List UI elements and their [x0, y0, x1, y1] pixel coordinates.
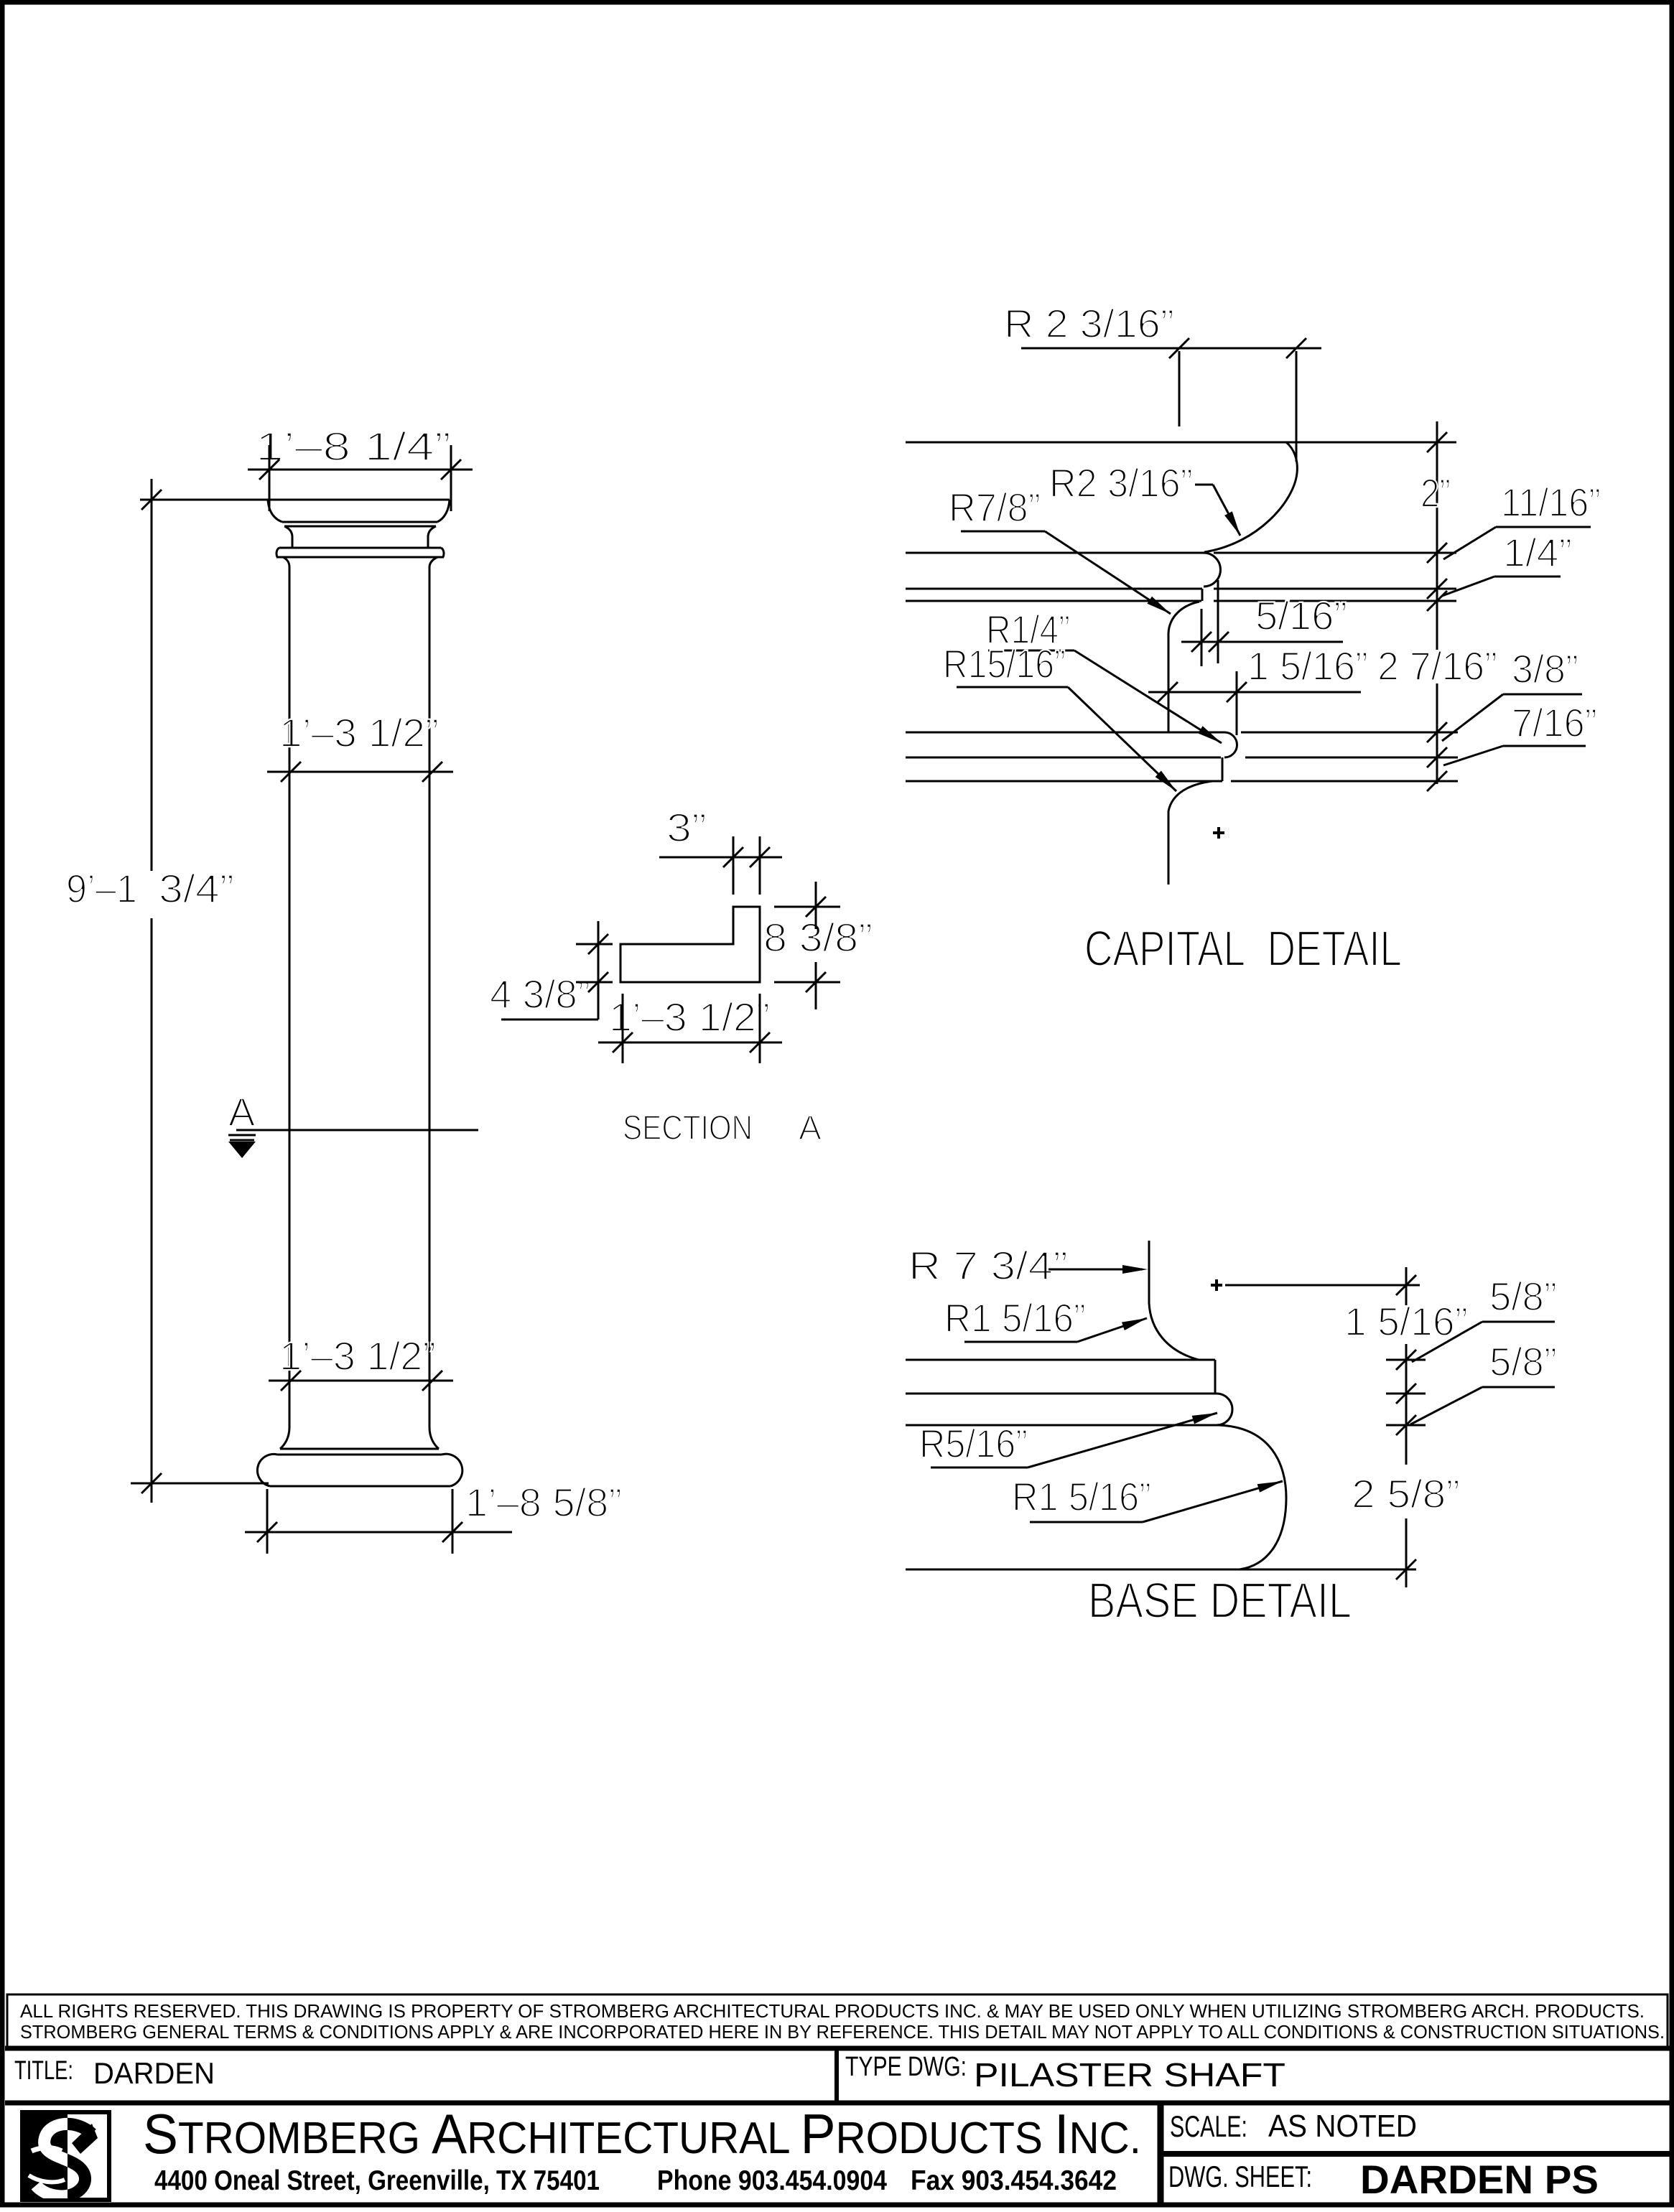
svg-text:PILASTER SHAFT: PILASTER SHAFT [974, 2056, 1285, 2094]
svg-text:A: A [799, 1109, 822, 1147]
company address line [154, 2165, 1117, 2196]
svg-text:1/4”: 1/4” [1503, 530, 1572, 575]
capital profile: bead bottom line [906, 757, 1458, 759]
svg-text:5/16”: 5/16” [1255, 593, 1347, 638]
section cut marker A [228, 1089, 478, 1158]
svg-text:4400 Oneal Street, Greenville,: 4400 Oneal Street, Greenville, TX 75401 [154, 2165, 600, 2196]
section A L-shaped profile [620, 907, 760, 982]
label R7/8" with leader [949, 485, 1171, 614]
label R1 5/16" (apophyge) with leader [944, 1295, 1147, 1342]
capital profile: apophyge R15/16 into shaft [1168, 781, 1212, 885]
svg-text:R1 5/16”: R1 5/16” [1012, 1474, 1151, 1519]
capital profile: astragal bead R1/4 [1224, 732, 1237, 757]
svg-text:4 3/8”: 4 3/8” [490, 971, 590, 1017]
svg-text:R 7 3/4”: R 7 3/4” [908, 1243, 1068, 1288]
svg-text:8 3/8”: 8 3/8” [763, 915, 873, 960]
capital profile: ovolo curve R2 3/16 [1204, 442, 1297, 552]
label R15/16" with leader [943, 641, 1176, 791]
svg-text:5/8”: 5/8” [1489, 1339, 1557, 1384]
svg-text:1’–3 1/2”: 1’–3 1/2” [609, 994, 770, 1040]
capital profile: fillet line lower [906, 600, 1456, 602]
label R5/16" (bead) with leader [919, 1413, 1217, 1467]
right extension line with ticks [1396, 1267, 1416, 1587]
capital profile: bullnose fillet cap [1204, 553, 1220, 587]
label 11/16" with leader [1443, 480, 1601, 559]
title row borders [5, 2048, 1670, 2103]
base profile: bead top line [906, 1393, 1426, 1395]
dimension 1'-8 1/4" (abacus width) [248, 424, 473, 511]
main title block dividers [1161, 2103, 1670, 2207]
svg-text:2 7/16”: 2 7/16” [1377, 643, 1497, 689]
svg-text:7/16”: 7/16” [1512, 700, 1597, 745]
dimension 8 3/8" [763, 882, 873, 1009]
svg-text:DARDEN: DARDEN [93, 2056, 215, 2090]
dimension 9'-1 3/4" (overall height) [66, 479, 269, 1503]
base profile: fillet top line [906, 1359, 1426, 1361]
svg-text:AS NOTED: AS NOTED [1268, 2109, 1417, 2144]
dimension 5/16" [1181, 580, 1347, 666]
base profile: torus R1 5/16 [1219, 1425, 1286, 1569]
base profile: fillet vertical face [1214, 1360, 1217, 1394]
base profile: shaft face and apophyge R1 5/16 [1149, 1241, 1199, 1360]
svg-text:R5/16”: R5/16” [919, 1421, 1028, 1466]
label 1/4" with leader [1442, 530, 1572, 596]
svg-text:DARDEN PS: DARDEN PS [1360, 2157, 1599, 2202]
svg-text:A: A [228, 1089, 256, 1134]
svg-text:1’–3 1/2”: 1’–3 1/2” [279, 1333, 436, 1378]
capital profile: shaft top line [906, 780, 1458, 783]
base profile: bottom line [906, 1569, 1416, 1571]
right extension line with ticks [1427, 421, 1447, 791]
svg-text:3/8”: 3/8” [1512, 646, 1578, 691]
svg-text:9’–1: 9’–1 [66, 866, 137, 911]
svg-text:DWG. SHEET:: DWG. SHEET: [1168, 2160, 1312, 2193]
capital profile: bead top line [906, 732, 1458, 734]
label R2 3/16" with leader [1049, 460, 1240, 536]
base profile: torus top line [906, 1424, 1426, 1427]
dimension 1'-3 1/2" (shaft bottom width) [269, 1333, 453, 1391]
center mark + and radius dim line [1211, 1279, 1420, 1291]
svg-text:5/8”: 5/8” [1489, 1274, 1557, 1319]
svg-text:1’–8 5/8”: 1’–8 5/8” [465, 1480, 622, 1525]
dimension 1 5/16" [1148, 643, 1368, 735]
svg-text:2 5/8”: 2 5/8” [1352, 1471, 1460, 1516]
label 3/8" with leader [1442, 646, 1582, 741]
svg-text:R2 3/16”: R2 3/16” [1049, 460, 1193, 505]
svg-text:11/16”: 11/16” [1501, 480, 1601, 525]
capital profile: line under abacus [906, 552, 1204, 554]
dimension R 2 3/16" (top) [1004, 301, 1321, 462]
disclaimer box [7, 1994, 1668, 2049]
svg-text:SECTION: SECTION [623, 1109, 753, 1147]
svg-text:STROMBERG GENERAL TERMS & COND: STROMBERG GENERAL TERMS & CONDITIONS APP… [20, 2021, 1665, 2043]
svg-text:TYPE DWG:: TYPE DWG: [845, 2052, 967, 2082]
svg-text:2”: 2” [1420, 470, 1451, 515]
capital profile: abacus top line [906, 442, 1456, 444]
Stromberg logo [22, 2112, 109, 2200]
column capital (abacus, echinus, astragal) [268, 500, 450, 567]
svg-text:Fax 903.454.3642: Fax 903.454.3642 [911, 2165, 1117, 2196]
dimension 4 3/8" [490, 921, 613, 1019]
svg-text:1’–8 1/4”: 1’–8 1/4” [256, 424, 451, 469]
label R1/4" with leader [986, 607, 1222, 743]
svg-text:R1 5/16”: R1 5/16” [944, 1295, 1086, 1340]
dimension 1'-3 1/2" (shaft top width) [267, 710, 453, 782]
svg-text:TITLE:: TITLE: [14, 2055, 73, 2085]
base profile: bead R5/16 [1217, 1394, 1232, 1425]
svg-text:SCALE:: SCALE: [1170, 2109, 1247, 2143]
svg-text:BASE DETAIL: BASE DETAIL [1088, 1572, 1352, 1628]
svg-text:3”: 3” [666, 805, 707, 850]
capital profile: fillet step under bead [1222, 757, 1224, 781]
svg-text:1 5/16”: 1 5/16” [1247, 643, 1368, 689]
column base (apophyge, fillets, torus) [257, 1427, 462, 1486]
label R1 5/16" (torus) with leader [1012, 1474, 1283, 1522]
dimension 3" [659, 805, 782, 895]
center mark + [1213, 827, 1224, 839]
dimension 1'-8 5/8" (base width) [245, 1480, 622, 1554]
svg-text:R7/8”: R7/8” [949, 485, 1041, 530]
capital profile: fillet line upper [906, 589, 1456, 601]
svg-text:ALL RIGHTS RESERVED. THIS DRAW: ALL RIGHTS RESERVED. THIS DRAWING IS PRO… [20, 2000, 1645, 2022]
svg-text:R15/16”: R15/16” [943, 641, 1066, 686]
label 7/16" with leader [1443, 700, 1597, 765]
svg-text:1’–3 1/2”: 1’–3 1/2” [279, 710, 439, 755]
label R 7 3/4" with arrow [908, 1243, 1148, 1288]
capital profile: cove R7/8 and neck [1168, 602, 1199, 732]
svg-text:Phone 903.454.0904: Phone 903.454.0904 [657, 2165, 887, 2196]
svg-text:R 2 3/16”: R 2 3/16” [1004, 301, 1174, 346]
label 5/8" lower with leader [1410, 1339, 1557, 1424]
svg-text:CAPITAL DETAIL: CAPITAL DETAIL [1084, 920, 1402, 976]
svg-text:3/4”: 3/4” [159, 866, 234, 911]
column shaft [289, 567, 429, 1427]
dimension 1'-3 1/2" (section width) [598, 994, 782, 1063]
label 5/8" upper with leader [1412, 1274, 1557, 1362]
svg-text:1 5/16”: 1 5/16” [1344, 1299, 1468, 1344]
